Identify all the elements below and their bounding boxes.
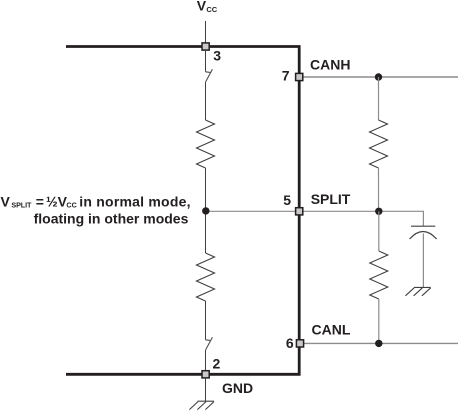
ground symbol (below pin 2) (189, 401, 214, 409)
wire CANL (pin 6 to right edge) (302, 342, 458, 344)
capacitor C1 (410, 226, 437, 239)
pin 3 terminal (202, 43, 209, 50)
wire resistor R2 to switch S2 (205, 301, 207, 340)
svg-text:3: 3 (213, 48, 221, 64)
wire SPLIT branch down to capacitor C1 (422, 211, 424, 226)
switch S2 (lower) (206, 337, 213, 349)
switch S1 (upper) (206, 69, 213, 81)
pin 6 terminal (296, 340, 303, 347)
node SPLIT (left junction) (202, 207, 209, 214)
wire switch S2 to pin 2 (205, 350, 207, 371)
pin 7 terminal (296, 73, 303, 80)
wire switch S1 to resistor R1 (205, 82, 207, 120)
pin 5 terminal (296, 208, 303, 215)
svg-text:floating in other modes: floating in other modes (34, 210, 189, 226)
wire VCC stub (205, 21, 207, 46)
svg-text:VCC: VCC (197, 0, 218, 14)
resistor R1 (upper left) (197, 120, 215, 168)
resistor R2 (lower left) (197, 253, 215, 301)
node junction CANH/R3 (375, 73, 382, 80)
node junction CANL/R4 (375, 340, 382, 347)
wire CANH (pin 7 to right edge) (302, 76, 458, 78)
svg-text:2: 2 (213, 356, 221, 372)
wire capacitor C1 to ground (422, 234, 424, 288)
svg-text:6: 6 (286, 335, 294, 351)
wire resistor R1 to SPLIT node (205, 168, 207, 253)
svg-text:GND: GND (222, 380, 253, 396)
wire pin 2 to ground (205, 378, 207, 401)
svg-text:SPLIT: SPLIT (311, 191, 351, 207)
node junction SPLIT/R3/R4 (375, 208, 382, 215)
svg-text:CANH: CANH (310, 57, 350, 73)
wire resistor R3 to SPLIT node (378, 168, 380, 211)
svg-text:7: 7 (282, 67, 290, 83)
wire SPLIT node to resistor R4 (378, 211, 380, 251)
resistor R4 (lower right) (370, 251, 388, 299)
svg-text:5: 5 (283, 192, 291, 208)
svg-text:VSPLIT=½VCCin normal mode,: VSPLIT=½VCCin normal mode, (1, 193, 191, 209)
wire SPLIT (left node through pin 5 to capacitor branch) (206, 210, 424, 212)
bus wire VCC/GND device boundary (thick) (66, 47, 299, 375)
wire pin3 to switch S1 (205, 50, 207, 72)
resistor R3 (upper right) (370, 120, 388, 168)
wire resistor R4 to CANL node (378, 299, 380, 343)
wire CANH node to resistor R3 (378, 77, 380, 120)
svg-text:CANL: CANL (312, 322, 351, 338)
ground symbol (below capacitor) (405, 287, 430, 295)
pin 2 terminal (202, 371, 209, 378)
